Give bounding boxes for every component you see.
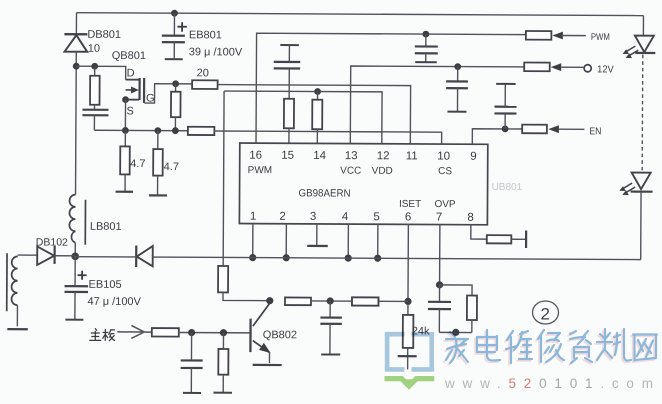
transformer winding left [7,253,18,326]
wire pin8 stub [471,225,487,239]
svg-text:GB98AERN: GB98AERN [299,187,351,199]
inductor LB801 [69,195,85,257]
node pin6 base line [404,298,411,305]
diode DB801 [64,34,87,52]
watermark chinese char liao [597,329,631,361]
watermark chinese char jia [446,332,468,363]
node base cap [188,329,195,336]
svg-text:4.7: 4.7 [164,161,179,173]
wire EN tail [559,128,584,130]
svg-text:16: 16 [249,150,262,162]
transistor QB802 [250,301,282,365]
svg-text:QB801: QB801 [112,50,146,62]
svg-text:11: 11 [406,150,418,162]
resistor 12V [524,63,550,72]
wire CS line to pin10 [214,131,441,144]
svg-text:12: 12 [377,150,390,162]
wire LED feed corner [642,16,644,36]
wire PWM net pin16 [256,33,526,144]
wire LED return [640,192,642,260]
terminal pin8 bar [525,231,527,248]
ground pin3 [307,245,327,247]
resistor 4.7 second [153,131,163,196]
watermark chinese shadow [444,331,655,365]
watermark chinese char zi [570,331,592,363]
node pin1 rail [249,254,256,261]
node EN cap [502,125,509,132]
svg-text:13: 13 [345,150,358,162]
svg-text:5: 5 [373,211,379,223]
node collector [266,297,273,304]
svg-text:VDD: VDD [372,166,393,177]
svg-text:7: 7 [436,212,442,224]
wire EN net pin9 [472,129,522,145]
wire pin4 stub [347,224,349,258]
node rectifier junction [71,253,79,261]
node pin5 rail [374,255,381,262]
resistor collector link [285,297,311,305]
op-amp U1 IC GB98AERN box [239,143,487,225]
watermark book icon blue [385,334,434,370]
resistor CS sense [188,127,215,135]
svg-text:S: S [126,105,133,117]
LED D1 [623,36,656,59]
watermark chinese char xiu [538,330,564,362]
ground winding [7,328,27,330]
svg-text:12V: 12V [597,64,614,75]
resistor VDD drop [218,266,270,301]
svg-text:8: 8 [467,212,473,224]
svg-text:3: 3 [310,211,316,223]
capacitor pin15 top [274,45,301,99]
svg-text:D: D [127,67,135,79]
node 12V cap [454,63,461,70]
resistor pin8 [487,235,512,243]
node base res [220,329,227,336]
svg-text:ISET: ISET [399,199,421,210]
wire pin2 stub [285,224,287,258]
wire left vertical DB801 to LB801 [75,52,78,195]
svg-text:EN: EN [589,126,601,137]
resistor base line second [352,297,379,305]
node divider top [91,63,98,70]
resistor EN [522,125,547,134]
diode DB102 [18,246,76,266]
resistor pin14 [312,92,322,144]
resistor snubber at x94 [90,66,100,105]
capacitor base filter [180,333,202,394]
node pin4 rail [345,254,352,261]
watermark chinese char wei [506,331,532,363]
node PWM cap [422,31,429,38]
ground 4.7 first [116,191,133,193]
watermark book icon green [385,379,435,387]
wire 12V net pin13 [350,66,524,145]
svg-text:PWM: PWM [248,165,273,176]
svg-text:39 μ /100V: 39 μ /100V [189,46,243,58]
capacitor EB105 [64,256,88,319]
svg-text:www.520101.com: www.520101.com [444,376,661,391]
svg-text:20: 20 [197,67,209,79]
svg-text:15: 15 [281,150,294,162]
watermark circled 2 [533,301,559,324]
wire gate bracket [145,84,193,104]
capacitor EN [494,84,516,129]
capacitor OVP [428,285,451,333]
wire source down to rail [124,100,126,131]
svg-text:10: 10 [437,151,450,163]
node mid cap [327,297,334,304]
svg-text:4: 4 [342,211,349,223]
wire dashed LED link [641,55,644,171]
wire left drop to DB801 [75,13,77,34]
svg-text:9: 9 [470,151,476,163]
svg-text:QB802: QB802 [263,329,297,341]
ground 4.7 second [149,194,167,196]
svg-text:47 μ /100V: 47 μ /100V [87,296,141,308]
resistor base pulldown [213,333,232,393]
svg-text:2: 2 [279,211,285,223]
wire pin5 stub [377,224,379,258]
svg-text:UB801: UB801 [492,182,523,193]
label main board [89,328,115,341]
wire pin8 tail [511,238,526,240]
node gate [172,80,179,87]
arrow EN [548,125,559,133]
transistor QB801 MOSFET [126,78,145,103]
node rail r2 [154,127,161,134]
capacitor snubber at x94 [82,105,108,131]
capacitor 12V line [446,67,468,112]
capacitor EB801 [162,10,187,60]
resistor pin15 [284,99,294,144]
wire PWM tail [563,35,586,37]
node rail source [122,127,129,134]
wire OVP bottom [439,331,471,333]
svg-text:VCC: VCC [340,166,361,177]
wire pin6 column [407,224,409,314]
wire top rail [76,13,643,16]
resistor OVP [439,285,477,333]
capacitor PWM line [415,34,438,62]
node rail divider [172,127,179,134]
svg-text:6: 6 [405,211,411,223]
node pin2 rail [283,254,290,261]
wire VDD net pin12 [224,91,382,144]
wire pin3 stub [316,224,318,246]
svg-text:1: 1 [250,211,256,223]
node left rail junction [73,63,80,70]
wire pin7 column [439,225,441,285]
svg-text:LB801: LB801 [90,221,122,233]
svg-text:DB102: DB102 [36,236,68,248]
wire 12V tail [561,66,584,68]
svg-text:4.7: 4.7 [130,158,145,170]
svg-text:10: 10 [88,43,100,55]
LED D2 [619,173,652,196]
svg-text:2: 2 [541,305,550,324]
diode rail second [136,245,153,267]
node OVP bottom [452,329,459,336]
node pin7 [436,281,443,288]
svg-text:CS: CS [438,166,452,177]
ground 24k [398,355,417,357]
watermark chinese char dian [477,330,500,360]
wire VDD drop long [222,91,225,266]
wire collector line right [311,300,408,303]
wire source rail [94,129,187,131]
resistor 4.7 first [120,130,130,191]
resistor 20 [192,80,218,89]
resistor 24k [403,315,414,370]
capacitor mid [320,301,342,355]
wire base line [179,332,250,334]
node VDD pin14 branch [314,88,321,95]
terminal 12V circle [584,65,591,72]
arrow main board input [117,325,152,338]
arrow PWM [552,32,563,40]
svg-text:OVP: OVP [434,199,456,210]
svg-text:DB801: DB801 [87,29,121,41]
watermark chinese char wang [633,335,657,361]
arrow 12V [551,63,562,71]
resistor gate divider [171,84,181,131]
svg-text:PWM: PWM [591,32,610,43]
svg-text:EB105: EB105 [89,279,122,291]
wire 20 resistor to pin11 column [217,85,410,144]
node source [122,96,129,103]
resistor PWM [526,31,552,40]
wire pin1 stub [252,224,254,258]
svg-text:14: 14 [313,150,326,162]
svg-text:EB801: EB801 [189,29,222,41]
wire node row to drain [76,66,126,79]
resistor base input [152,328,179,337]
wire main rail [75,257,640,260]
